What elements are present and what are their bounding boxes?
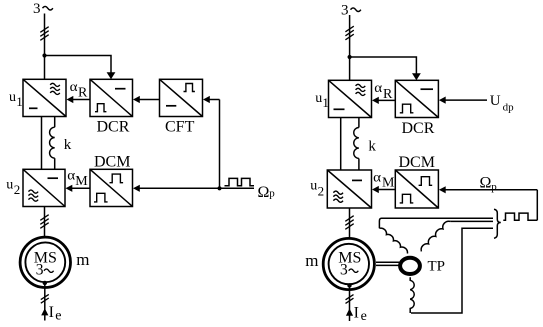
svg-text:p: p — [491, 181, 497, 193]
svg-text:α: α — [373, 169, 381, 184]
svg-text:M: M — [382, 176, 395, 191]
svg-text:I: I — [49, 304, 54, 321]
svg-text:CFT: CFT — [165, 118, 195, 135]
svg-text:DCR: DCR — [97, 118, 130, 135]
svg-text:u: u — [6, 177, 13, 192]
svg-text:R: R — [383, 87, 393, 102]
svg-text:p: p — [269, 188, 275, 200]
svg-text:R: R — [78, 86, 88, 101]
svg-text:k: k — [64, 137, 72, 153]
svg-text:I: I — [354, 305, 359, 322]
svg-text:u: u — [315, 91, 322, 106]
svg-text:u: u — [9, 90, 16, 105]
svg-text:TP: TP — [428, 259, 446, 275]
svg-text:α: α — [70, 79, 78, 94]
svg-text:3: 3 — [36, 262, 44, 279]
svg-text:2: 2 — [318, 183, 325, 198]
svg-text:2: 2 — [14, 182, 20, 197]
svg-text:m: m — [305, 251, 318, 270]
svg-text:DCR: DCR — [402, 120, 435, 137]
svg-text:dp: dp — [503, 102, 514, 114]
svg-text:Ω: Ω — [258, 184, 270, 201]
svg-text:1: 1 — [322, 95, 329, 110]
svg-text:3: 3 — [33, 1, 41, 17]
svg-text:U: U — [490, 93, 501, 109]
svg-text:3: 3 — [340, 262, 348, 279]
svg-text:u: u — [310, 179, 317, 194]
svg-text:k: k — [368, 139, 376, 155]
svg-text:Ω: Ω — [480, 175, 492, 192]
svg-text:e: e — [55, 308, 61, 323]
svg-text:DCM: DCM — [94, 154, 130, 171]
svg-text:1: 1 — [16, 94, 23, 109]
svg-text:α: α — [374, 80, 382, 95]
svg-text:DCM: DCM — [399, 154, 435, 171]
svg-text:e: e — [361, 309, 367, 324]
svg-text:3: 3 — [341, 3, 349, 19]
svg-text:m: m — [76, 250, 89, 269]
svg-text:α: α — [67, 168, 75, 183]
svg-text:M: M — [75, 174, 88, 189]
